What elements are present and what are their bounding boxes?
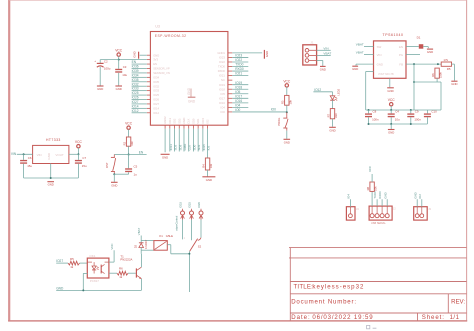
svg-text:GND: GND [427,50,433,54]
svg-text:IO2: IO2 [207,145,211,150]
svg-text:R2: R2 [122,141,126,145]
svg-text:SD1: SD1 [196,118,200,124]
svg-text:IO14: IO14 [132,104,139,108]
svg-text:IO25: IO25 [188,202,192,208]
svg-text:R5: R5 [70,257,74,261]
svg-text:C8: C8 [373,110,377,114]
svg-text:VIN: VIN [323,46,328,50]
svg-text:100n: 100n [372,118,379,122]
svg-text:100n: 100n [414,118,421,122]
svg-text:VBAT: VBAT [356,51,364,55]
svg-text:REV:: REV: [451,298,465,305]
svg-text:100u: 100u [104,67,111,71]
svg-text:IO21: IO21 [219,74,225,78]
svg-text:wiperControl: wiperControl [175,215,179,230]
svg-text:IO36: IO36 [132,65,139,69]
svg-text:SENSOR_VP: SENSOR_VP [153,67,170,71]
svg-text:IO23: IO23 [219,56,225,60]
svg-text:VIN: VIN [37,153,42,157]
svg-text:GND: GND [206,178,212,182]
svg-text:IO33: IO33 [132,87,139,91]
svg-text:+: + [94,59,96,63]
svg-text:EN: EN [153,62,157,66]
svg-text:PC817: PC817 [90,279,100,283]
svg-text:SD3: SD3 [178,144,182,150]
svg-text:330: 330 [334,113,338,118]
svg-text:R6: R6 [119,267,123,271]
svg-text:RXD0: RXD0 [218,69,226,73]
svg-text:SD0: SD0 [192,144,196,150]
svg-text:R8: R8 [366,186,370,190]
svg-text:GND: GND [383,192,387,198]
svg-text:GND: GND [48,183,54,187]
svg-text:EN: EN [399,45,403,49]
svg-text:IO18: IO18 [235,85,242,89]
svg-text:GND: GND [187,87,191,95]
svg-text:IO17: IO17 [235,94,242,98]
svg-text:R7: R7 [326,113,330,117]
svg-text:17k: 17k [443,58,448,62]
svg-text:R4: R4 [201,164,205,168]
svg-text:150k: 150k [439,72,443,78]
svg-text:VBAT: VBAT [137,228,141,236]
svg-text:GND: GND [97,87,103,91]
svg-text:10k: 10k [374,186,378,191]
svg-text:VCC: VCC [388,98,396,102]
svg-text:IO23: IO23 [235,54,242,58]
svg-text:IO12: IO12 [314,88,321,92]
svg-text:1u: 1u [134,173,138,177]
svg-text:D2: D2 [134,244,138,248]
svg-text:IO34: IO34 [153,75,159,79]
svg-text:TITLE:: TITLE: [294,284,314,291]
svg-text:C4: C4 [395,110,399,114]
svg-text:SENSOR_VN: SENSOR_VN [153,71,170,75]
svg-text:IO27: IO27 [56,259,63,263]
svg-text:IO0: IO0 [271,108,276,112]
svg-text:IO0: IO0 [235,108,240,112]
svg-text:GND: GND [388,131,394,135]
svg-text:10k: 10k [209,163,213,168]
svg-text:IO25: IO25 [153,93,159,97]
svg-text:GND: GND [162,155,168,159]
svg-text:RST: RST [105,162,109,168]
svg-text:SW: SW [377,45,382,49]
svg-text:GND: GND [265,51,269,57]
svg-text:IO2: IO2 [206,119,210,124]
svg-text:R3: R3 [281,100,285,104]
svg-text:PROG: PROG [277,118,281,126]
svg-text:IO19: IO19 [235,81,242,85]
svg-text:IO15: IO15 [202,144,206,151]
svg-text:Sheet:: Sheet: [422,314,445,321]
svg-text:10k: 10k [288,99,292,104]
svg-text:10u: 10u [395,118,400,122]
svg-text:IO15: IO15 [201,117,205,123]
svg-text:SD2: SD2 [174,144,178,150]
svg-text:IO4: IO4 [221,105,226,109]
svg-text:C3: C3 [123,65,127,69]
svg-text:IO32: IO32 [132,82,139,86]
svg-text:IO39: IO39 [132,69,139,73]
svg-text:IO26: IO26 [132,96,139,100]
svg-text:IO13: IO13 [168,117,172,123]
svg-text:OK1: OK1 [89,254,95,258]
svg-text:TXD0: TXD0 [218,65,225,69]
svg-text:IO35: IO35 [132,78,139,82]
svg-text:GND: GND [133,51,137,57]
svg-text:15u: 15u [82,164,87,168]
svg-text:VIN: VIN [377,53,382,57]
svg-text:LED2: LED2 [337,88,341,95]
svg-text:VBAT: VBAT [356,43,364,47]
svg-text:GND: GND [413,192,417,198]
svg-text:IO16: IO16 [235,99,242,103]
svg-text:IO4: IO4 [235,103,240,107]
svg-text:CLK: CLK [188,145,192,151]
svg-text:R5: R5 [447,67,451,71]
svg-text:FB: FB [399,62,403,66]
svg-text:VCC: VCC [115,49,123,53]
svg-text:VCC: VCC [75,140,83,144]
svg-text:SD1: SD1 [197,144,201,150]
svg-text:VCC: VCC [368,166,372,172]
svg-text:EN: EN [132,60,137,64]
svg-text:IO0: IO0 [221,110,226,114]
svg-text:TPS61040: TPS61040 [383,33,404,37]
svg-text:IO22: IO22 [235,58,242,62]
svg-text:IO5: IO5 [221,92,226,96]
svg-text:IO13: IO13 [169,144,173,151]
svg-text:C6: C6 [28,156,32,160]
svg-text:GND: GND [188,99,196,103]
svg-text:GND: GND [451,82,457,86]
svg-text:IO21: IO21 [235,72,242,76]
svg-text:D1: D1 [417,36,421,40]
svg-text:10u: 10u [122,73,127,77]
svg-text:GND: GND [377,62,383,66]
svg-text:ESP-WROOM-32: ESP-WROOM-32 [155,34,187,38]
svg-text:IO2: IO2 [418,194,422,199]
svg-text:NC: NC [221,78,225,82]
svg-text:U3: U3 [155,25,160,29]
svg-text:RXD0: RXD0 [378,191,382,199]
svg-text:VIN: VIN [11,152,17,156]
svg-text:15u: 15u [27,164,32,168]
svg-text:USB SERIAL: USB SERIAL [371,222,386,225]
svg-text:1N4007: 1N4007 [144,239,148,249]
svg-text:SD3: SD3 [177,118,181,124]
svg-text:IO12: IO12 [132,109,139,113]
svg-text:C5: C5 [134,165,138,169]
svg-text:TXD0: TXD0 [235,63,243,67]
svg-text:keyless-esp32: keyless-esp32 [312,284,364,291]
svg-text:C2: C2 [104,60,108,64]
svg-text:IO32: IO32 [153,84,159,88]
svg-text:TXD0: TXD0 [373,191,377,199]
svg-text:IO18: IO18 [219,87,225,91]
svg-text:C7: C7 [82,156,86,160]
svg-text:VOUT NR LTB: VOUT NR LTB [378,73,394,76]
svg-text:VCC: VCC [110,243,114,249]
svg-text:10k: 10k [130,141,134,146]
svg-text:IO5: IO5 [235,90,240,94]
svg-text:IO16: IO16 [219,101,225,105]
svg-text:C10: C10 [431,110,437,114]
svg-text:CMD: CMD [182,118,186,124]
svg-text:VCC: VCC [283,79,291,83]
svg-text:GND: GND [329,128,335,132]
svg-text:IO27: IO27 [153,102,159,106]
svg-text:IO27: IO27 [132,100,139,104]
svg-text:CLK: CLK [187,118,191,123]
svg-text:IO14: IO14 [153,106,159,110]
svg-text:IO25: IO25 [132,91,139,95]
svg-text:IO26: IO26 [197,202,201,208]
svg-text:GND: GND [153,53,159,57]
svg-text:RXD0: RXD0 [235,67,244,71]
svg-text:IO17: IO17 [219,96,225,100]
svg-text:GND: GND [284,140,290,144]
svg-text:SD2: SD2 [173,118,177,124]
svg-text:VBAT: VBAT [323,51,331,55]
svg-text:3V3: 3V3 [153,58,158,62]
svg-text:CMD: CMD [183,144,187,151]
svg-text:GND: GND [352,67,358,71]
svg-text:PN2222A: PN2222A [120,258,132,262]
svg-text:IO4: IO4 [347,194,351,199]
svg-text:R6: R6 [431,73,435,77]
svg-text:C9: C9 [415,110,419,114]
svg-text:06/03/2022 19:59: 06/03/2022 19:59 [312,314,373,321]
svg-text:GND: GND [387,89,393,93]
svg-text:IO33: IO33 [179,202,183,208]
svg-text:Document Number:: Document Number: [291,299,357,306]
svg-text:IO12: IO12 [153,111,159,115]
svg-text:GND2: GND2 [163,116,167,124]
svg-text:K1: K1 [159,234,163,238]
svg-text:VOUT: VOUT [55,153,64,157]
svg-text:IO19: IO19 [219,83,225,87]
svg-text:HT7333: HT7333 [46,138,61,142]
svg-text:IO35: IO35 [153,80,159,84]
svg-text:EN: EN [139,150,144,154]
svg-text:VCC: VCC [125,122,133,126]
svg-text:1/1: 1/1 [450,314,460,321]
svg-text:SD0: SD0 [191,118,195,124]
svg-text:GND: GND [320,67,326,71]
svg-text:GND: GND [116,87,122,91]
svg-text:IO26: IO26 [153,98,159,102]
svg-text:S2: S2 [198,245,202,249]
svg-text:GND: GND [47,152,51,160]
svg-text:GND: GND [111,183,117,187]
svg-text:J1: J1 [310,41,313,45]
svg-text:IO22: IO22 [219,60,225,64]
svg-text:IO33: IO33 [153,89,159,93]
svg-text:Date:: Date: [291,314,311,321]
svg-text:IO34: IO34 [132,73,139,77]
svg-text:GND1: GND1 [217,51,225,55]
svg-text:G5LE: G5LE [166,234,173,238]
